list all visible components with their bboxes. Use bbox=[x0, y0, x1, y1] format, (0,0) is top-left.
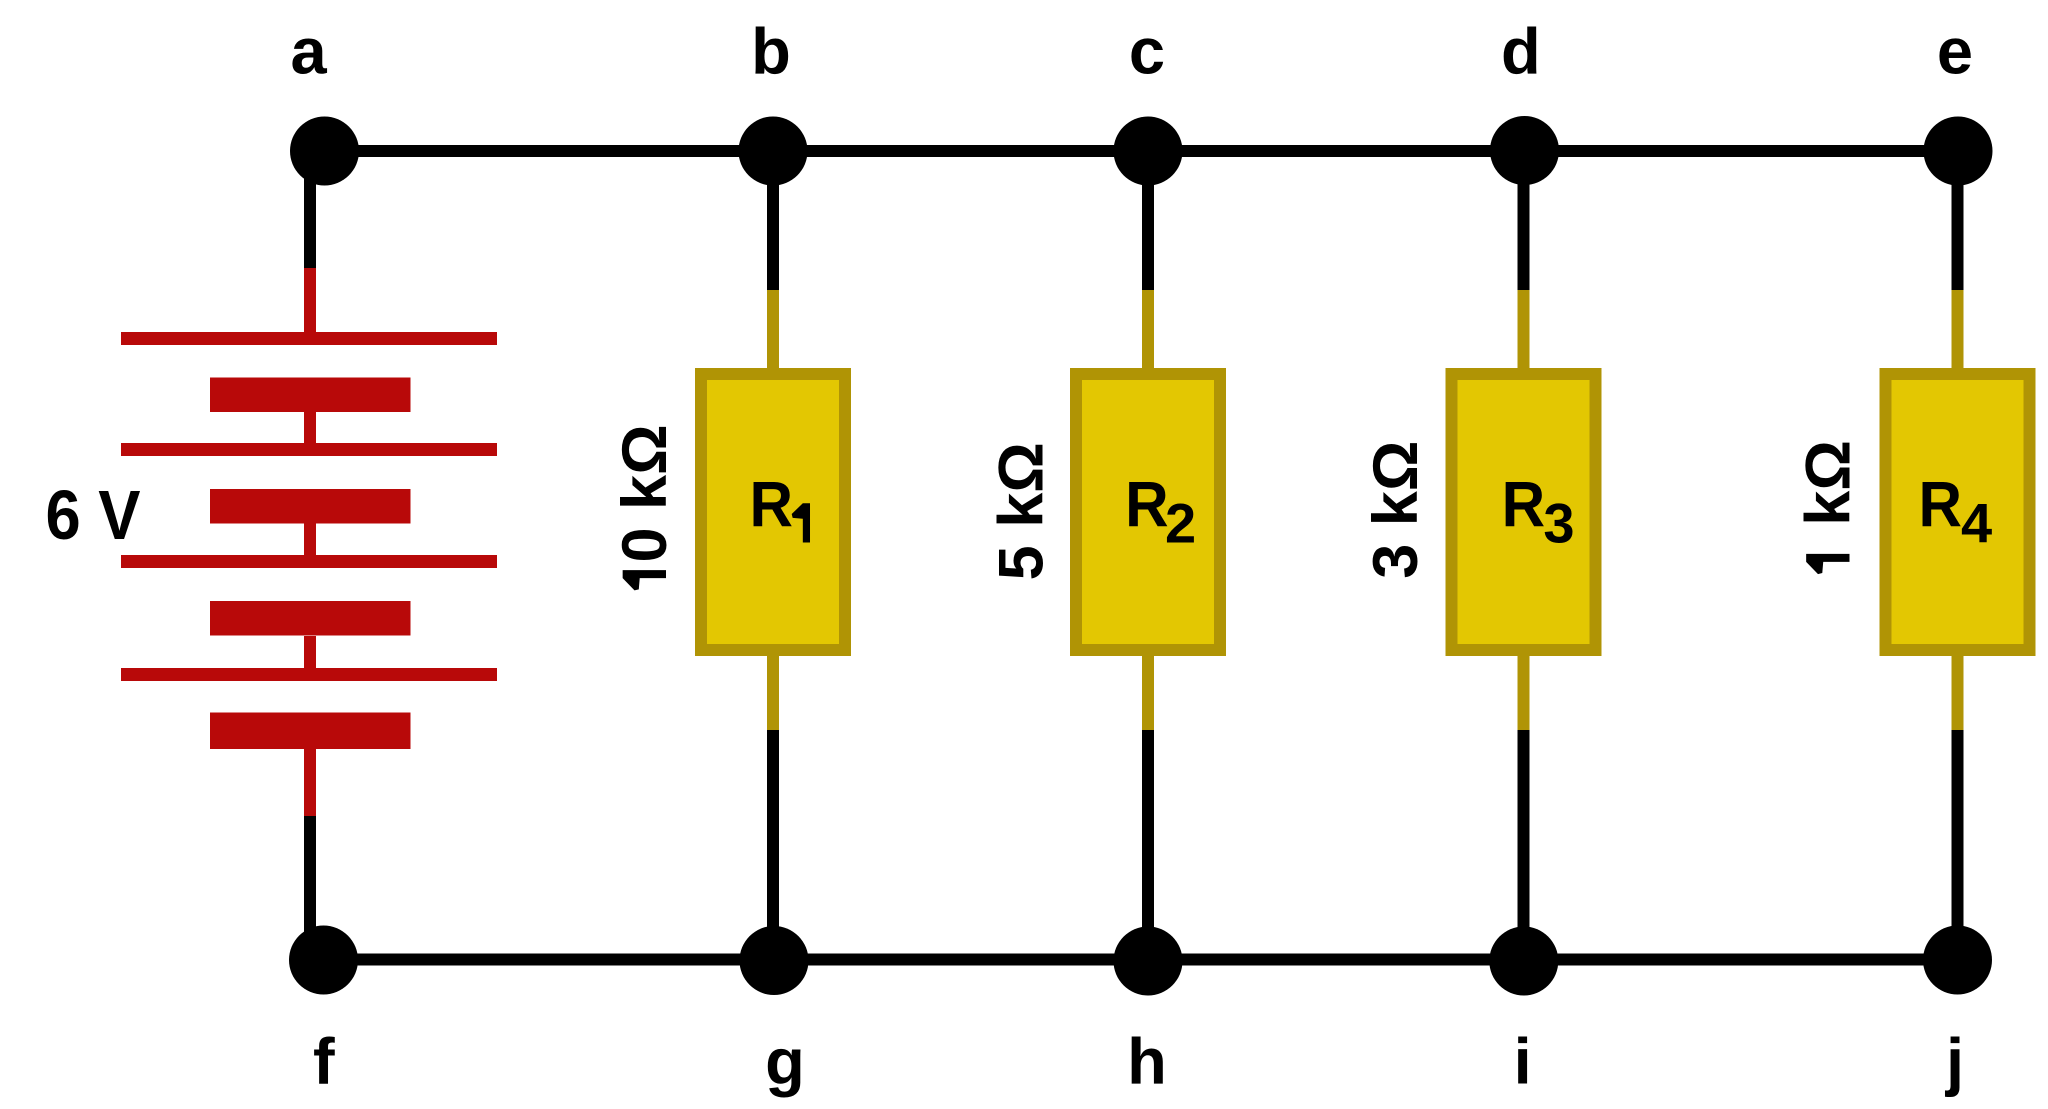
svg-text:R: R bbox=[750, 469, 794, 541]
svg-text:a: a bbox=[291, 15, 328, 88]
svg-text:j: j bbox=[1944, 1025, 1964, 1098]
svg-text:R: R bbox=[1125, 469, 1169, 541]
svg-text:i: i bbox=[1514, 1025, 1532, 1098]
svg-text:kΩ: kΩ bbox=[1794, 440, 1864, 526]
svg-text:b: b bbox=[751, 15, 791, 88]
svg-text:h: h bbox=[1127, 1025, 1167, 1098]
svg-text:c: c bbox=[1129, 15, 1165, 88]
svg-text:R: R bbox=[1919, 469, 1963, 541]
svg-text:2: 2 bbox=[1165, 492, 1196, 555]
svg-text:4: 4 bbox=[1961, 492, 1992, 555]
svg-text:f: f bbox=[313, 1025, 335, 1098]
svg-text:3 kΩ: 3 kΩ bbox=[1361, 441, 1431, 579]
svg-text:R: R bbox=[1502, 469, 1546, 541]
svg-text:5 kΩ: 5 kΩ bbox=[986, 442, 1056, 580]
svg-text:e: e bbox=[1937, 15, 1973, 88]
svg-text:6 V: 6 V bbox=[46, 476, 141, 554]
svg-text:d: d bbox=[1501, 15, 1541, 88]
svg-text:0 kΩ: 0 kΩ bbox=[610, 424, 680, 562]
svg-text:3: 3 bbox=[1543, 492, 1574, 555]
svg-text:g: g bbox=[765, 1025, 805, 1098]
